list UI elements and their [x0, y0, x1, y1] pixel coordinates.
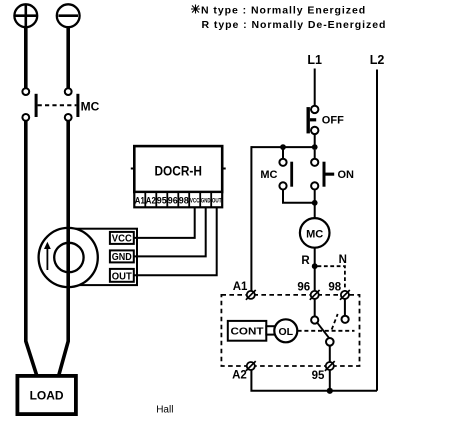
svg-text:VCC: VCC — [112, 234, 132, 245]
svg-text:A1: A1 — [233, 281, 248, 293]
wire common to 95 — [329, 346, 331, 362]
wire from minus to MC contact — [66, 27, 70, 88]
svg-text:96: 96 — [297, 282, 310, 294]
current sensor body box — [66, 229, 137, 285]
junction dot above coil — [312, 200, 318, 206]
right power wire to load (over CT) — [59, 121, 69, 376]
svg-text:GND: GND — [201, 197, 211, 204]
svg-text:OL: OL — [279, 326, 294, 338]
svg-text:A1: A1 — [135, 196, 146, 207]
dashed link R to N to 98 — [318, 266, 345, 291]
terminal 96 — [310, 290, 320, 300]
svg-text:R: R — [301, 255, 310, 267]
wire 95 to bottom rail — [329, 370, 331, 391]
changeover arm dashed alternate — [332, 314, 338, 330]
sensor terminal VCC — [110, 232, 134, 245]
svg-text:98: 98 — [328, 282, 341, 294]
MC auxiliary contact — [260, 147, 314, 203]
common contact point — [326, 338, 334, 346]
wire 98 to contact — [344, 299, 346, 316]
terminal A2 — [246, 361, 256, 371]
overload relay OL — [274, 319, 297, 342]
svg-text:CONT: CONT — [231, 327, 264, 338]
left control wire down to A1 — [250, 146, 252, 291]
LOAD box — [17, 376, 76, 414]
contact point under 98 — [342, 316, 349, 323]
wire coil to terminal 96 — [314, 248, 316, 292]
CONT box — [228, 321, 266, 341]
connector CONT to OL — [266, 326, 274, 334]
dashed relay outline box — [221, 295, 359, 366]
svg-text:R type : Normally De-Energized: R type : Normally De-Energized — [202, 19, 387, 31]
wire A2 down and bottom rail to L2 — [251, 370, 377, 391]
svg-text:DOCR-H: DOCR-H — [154, 163, 202, 178]
terminal A1 — [246, 290, 256, 300]
wire OFF to junction — [314, 134, 316, 148]
wire from plus to MC contact — [24, 27, 28, 88]
wire VCC sensor to DOCR-H — [134, 207, 195, 238]
svg-text:A2: A2 — [232, 370, 247, 382]
junction dot bottom rail — [327, 388, 333, 394]
svg-text:N type : Normally Energized: N type : Normally Energized — [201, 5, 366, 17]
relay DOCR-H body — [131, 146, 226, 192]
junction dot MC branch — [280, 144, 286, 150]
svg-text:N: N — [339, 254, 347, 266]
branch wire to left rail — [251, 146, 314, 148]
minus supply terminal — [57, 4, 80, 27]
wire GND sensor to DOCR-H — [134, 207, 206, 256]
wire OUT sensor to DOCR-H — [134, 207, 217, 275]
svg-text:95: 95 — [312, 370, 325, 382]
left power wire to load — [26, 121, 37, 376]
CT outer ring — [39, 228, 98, 287]
svg-text:OFF: OFF — [322, 115, 344, 127]
svg-text:Hall: Hall — [156, 405, 173, 416]
sensor terminal OUT — [110, 269, 134, 282]
svg-text:VCC: VCC — [190, 197, 200, 204]
sensor terminal GND — [110, 250, 134, 263]
terminal 98 — [340, 290, 350, 300]
junction dot under OFF — [312, 144, 318, 150]
svg-text:GND: GND — [112, 252, 132, 263]
svg-text:OUT: OUT — [212, 197, 222, 204]
svg-text:MC: MC — [306, 228, 323, 240]
note text line 1 — [191, 5, 366, 17]
terminal 95 — [325, 361, 335, 371]
svg-text:A2: A2 — [146, 196, 156, 207]
dashed linkage OL to contact — [298, 330, 355, 332]
pushbutton OFF (NC) — [307, 106, 345, 134]
svg-text:96: 96 — [168, 196, 178, 207]
changeover arm solid — [317, 323, 330, 340]
svg-text:OUT: OUT — [112, 271, 132, 282]
L2 wire — [376, 70, 378, 391]
junction dot node R — [312, 263, 318, 269]
contactor coil MC — [300, 218, 330, 248]
svg-text:98: 98 — [179, 196, 189, 207]
main contactor MC (power contacts) — [22, 88, 99, 121]
pushbutton ON (NO) — [311, 150, 354, 203]
svg-text:MC: MC — [81, 100, 100, 114]
svg-text:ON: ON — [338, 169, 355, 181]
wire 96 to contact — [314, 299, 316, 317]
plus supply terminal — [14, 4, 37, 27]
svg-text:MC: MC — [260, 169, 277, 181]
svg-text:LOAD: LOAD — [30, 389, 64, 403]
svg-text:L2: L2 — [370, 53, 385, 67]
svg-text:L1: L1 — [307, 53, 322, 67]
wire to MC coil — [314, 203, 316, 218]
svg-text:95: 95 — [157, 196, 168, 207]
L1 wire — [314, 69, 316, 106]
CT arrow — [44, 242, 51, 270]
contact point under 96 — [311, 316, 318, 323]
relay DOCR-H terminal strip — [134, 192, 222, 207]
CT inner ring — [54, 243, 83, 272]
